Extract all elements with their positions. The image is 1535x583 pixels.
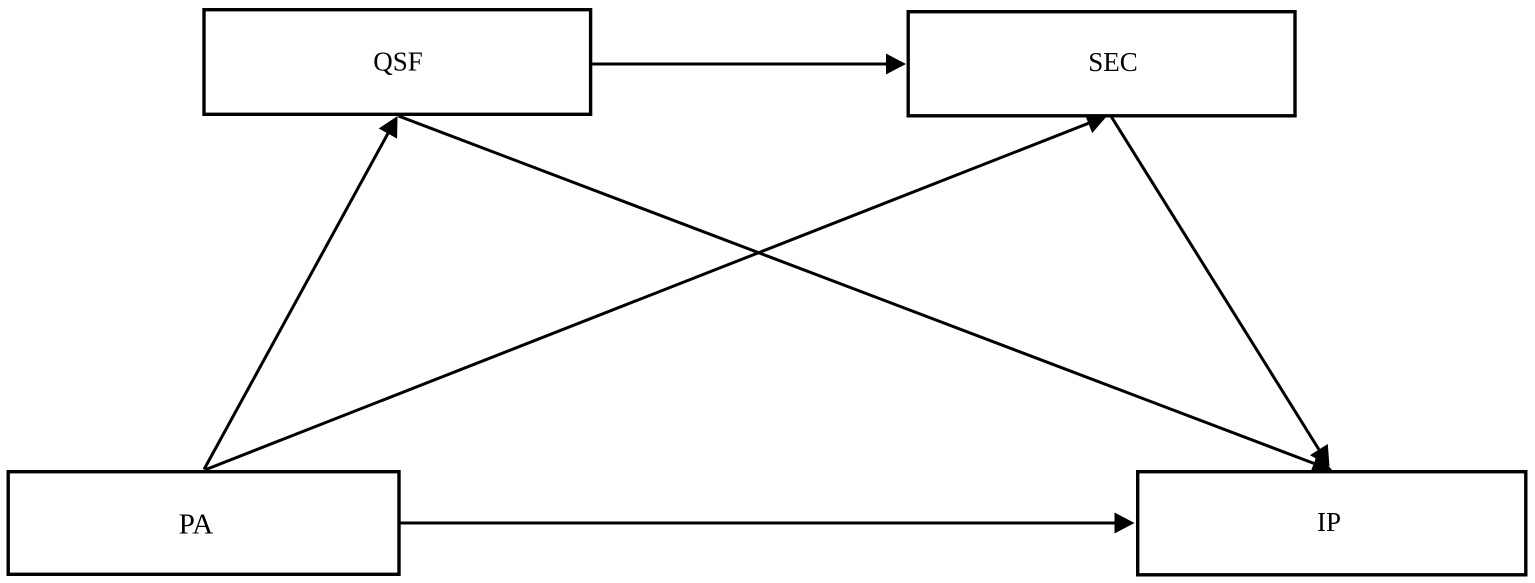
svg-text:PA: PA xyxy=(179,509,213,541)
node IP xyxy=(1138,472,1526,575)
arrowhead QSF-SEC xyxy=(886,54,906,75)
node QSF xyxy=(204,10,591,115)
arrowhead PA-QSF xyxy=(379,116,398,139)
svg-text:IP: IP xyxy=(1317,507,1341,537)
wire SEC-IP xyxy=(1112,117,1319,450)
svg-text:QSF: QSF xyxy=(373,47,423,77)
wire PA-IP xyxy=(399,522,1115,525)
wire PA-SEC xyxy=(206,123,1088,469)
node PA xyxy=(8,472,399,575)
wire PA-QSF xyxy=(204,134,388,470)
wire QSF-IP xyxy=(399,116,1314,463)
wire QSF-SEC xyxy=(592,63,886,66)
arrowhead PA-SEC xyxy=(1085,114,1108,134)
svg-text:SEC: SEC xyxy=(1088,47,1138,77)
arrowhead PA-IP xyxy=(1115,513,1135,534)
node SEC xyxy=(908,12,1295,116)
arrowhead QSF-IP xyxy=(1310,454,1332,474)
arrowhead SEC-IP xyxy=(1310,444,1330,467)
